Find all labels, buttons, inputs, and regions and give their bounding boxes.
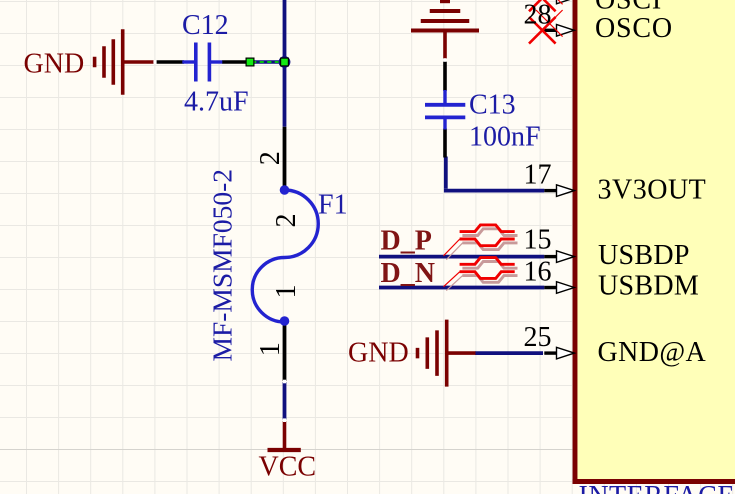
svg-text:OSCO: OSCO	[595, 13, 673, 44]
svg-text:1: 1	[271, 285, 302, 299]
svg-text:4.7uF: 4.7uF	[184, 86, 249, 117]
svg-text:USBDM: USBDM	[598, 271, 699, 302]
svg-text:GND: GND	[24, 48, 85, 79]
svg-text:17: 17	[524, 159, 552, 190]
svg-text:28: 28	[524, 0, 552, 31]
svg-text:C13: C13	[469, 90, 516, 121]
svg-text:16: 16	[524, 257, 552, 288]
svg-text:1: 1	[255, 342, 286, 356]
svg-text:USBDP: USBDP	[598, 240, 690, 271]
svg-text:D_P: D_P	[381, 226, 432, 257]
svg-text:15: 15	[524, 224, 552, 255]
svg-text:GND: GND	[348, 338, 409, 369]
svg-text:C12: C12	[182, 10, 229, 41]
svg-text:3V3OUT: 3V3OUT	[598, 174, 707, 205]
svg-text:D_N: D_N	[381, 258, 435, 289]
svg-text:2: 2	[271, 214, 302, 228]
svg-text:F1: F1	[318, 190, 348, 221]
svg-text:GND@A: GND@A	[598, 337, 707, 368]
svg-text:VCC: VCC	[259, 452, 317, 483]
svg-text:MF-MSMF050-2: MF-MSMF050-2	[207, 169, 238, 362]
svg-text:25: 25	[524, 322, 552, 353]
svg-text:100nF: 100nF	[469, 122, 541, 153]
svg-text:INTERFACE: INTERFACE	[579, 481, 735, 494]
svg-text:2: 2	[255, 151, 286, 165]
